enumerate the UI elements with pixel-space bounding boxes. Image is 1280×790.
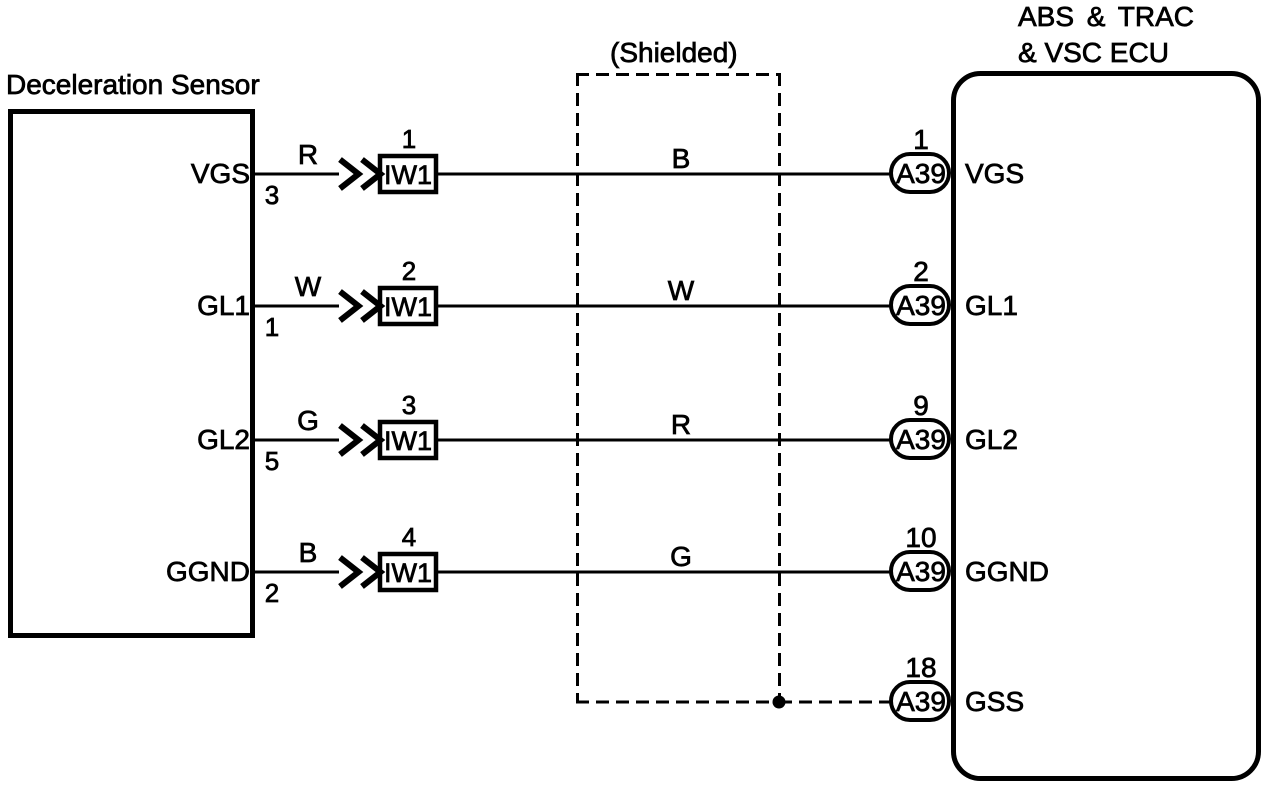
svg-text:2: 2 [402, 256, 416, 286]
svg-text:9: 9 [913, 390, 929, 421]
shield box top edge [576, 73, 779, 76]
svg-text:GL1: GL1 [965, 290, 1018, 321]
wire W from IW1 to ECU A39 pin2 [438, 305, 890, 308]
svg-text:Deceleration Sensor: Deceleration Sensor [6, 69, 260, 100]
connector IW1 (row2) [380, 288, 436, 324]
shield box bottom edge (drain wire to junction) [576, 701, 779, 704]
connector IW1 (row4) [380, 554, 436, 590]
svg-text:1: 1 [402, 124, 416, 154]
wire G from IW1 to ECU A39 pin10 [438, 571, 890, 574]
svg-text:A39: A39 [896, 158, 946, 189]
svg-text:R: R [671, 409, 691, 440]
svg-text:5: 5 [265, 446, 279, 476]
svg-text:IW1: IW1 [384, 160, 432, 190]
svg-text:GL2: GL2 [965, 424, 1018, 455]
shield box left edge [576, 73, 579, 702]
svg-text:3: 3 [402, 390, 416, 420]
svg-text:B: B [672, 143, 691, 174]
wire G from sensor GL2 to junction [251, 439, 339, 442]
connector A39 (GSS) [891, 682, 949, 720]
svg-text:GL1: GL1 [197, 290, 250, 321]
svg-text:IW1: IW1 [384, 558, 432, 588]
wire R from IW1 to ECU A39 pin9 [438, 439, 890, 442]
wire R from sensor VGS to junction [251, 173, 339, 176]
svg-text:A39: A39 [896, 686, 946, 717]
svg-text:GL2: GL2 [197, 424, 250, 455]
component: ABS & TRAC & VSC ECU box [954, 74, 1259, 779]
connector IW1 (row1) [380, 156, 436, 192]
svg-text:GGND: GGND [166, 556, 250, 587]
wire B from sensor GGND to junction [251, 571, 339, 574]
svg-text:A39: A39 [896, 556, 946, 587]
junction node dot [773, 696, 786, 709]
svg-text:4: 4 [402, 522, 416, 552]
svg-text:A39: A39 [896, 424, 946, 455]
svg-text:2: 2 [913, 256, 929, 287]
component: Deceleration Sensor connector box [11, 112, 253, 636]
connector A39 (GL2) [891, 420, 949, 458]
svg-text:VGS: VGS [965, 158, 1024, 189]
connector IW1 (row3) [380, 422, 436, 458]
wire W from sensor GL1 to junction [251, 305, 339, 308]
junction connector chevrons row4 [340, 558, 381, 587]
svg-text:18: 18 [905, 652, 936, 683]
svg-text:GGND: GGND [965, 556, 1049, 587]
svg-text:A39: A39 [896, 290, 946, 321]
svg-text:1: 1 [265, 312, 279, 342]
svg-text:G: G [297, 405, 319, 436]
svg-text:ABS & TRAC: ABS & TRAC [1018, 1, 1194, 32]
svg-text:W: W [668, 275, 695, 306]
svg-text:GSS: GSS [965, 686, 1024, 717]
svg-text:IW1: IW1 [384, 426, 432, 456]
svg-text:3: 3 [265, 180, 279, 210]
svg-text:G: G [670, 541, 692, 572]
svg-text:2: 2 [265, 578, 279, 608]
svg-text:VGS: VGS [191, 158, 250, 189]
svg-text:W: W [295, 271, 322, 302]
junction connector chevrons row3 [340, 426, 381, 455]
svg-text:1: 1 [913, 124, 929, 155]
svg-text:10: 10 [905, 522, 936, 553]
svg-text:B: B [299, 537, 318, 568]
junction connector chevrons row1 [340, 160, 381, 189]
svg-text:R: R [298, 139, 318, 170]
connector A39 (GL1) [891, 286, 949, 324]
shield box right edge [778, 73, 781, 702]
svg-text:IW1: IW1 [384, 292, 432, 322]
label: ABS & TRAC & VSC ECU [1018, 1, 1194, 68]
wire B from IW1 to ECU A39 pin1 [438, 173, 890, 176]
junction connector chevrons row2 [340, 292, 381, 321]
connector A39 (GGND) [891, 552, 949, 590]
svg-text:(Shielded): (Shielded) [610, 37, 738, 68]
svg-text:& VSC ECU: & VSC ECU [1018, 37, 1169, 68]
dashed drain wire from junction to A39 pin18 [779, 701, 890, 704]
connector A39 (VGS) [891, 154, 949, 192]
